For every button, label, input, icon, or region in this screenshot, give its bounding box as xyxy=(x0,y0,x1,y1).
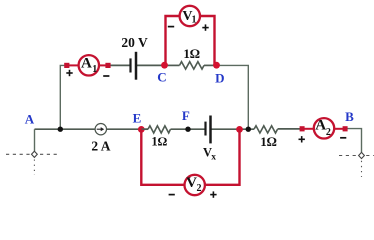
resistor 1ohm top (C-D) xyxy=(180,46,205,69)
V1 polarity signs xyxy=(168,24,209,30)
resistor 1ohm bottom-left (E-F) xyxy=(148,126,171,149)
voltmeter V1 red loop wires xyxy=(166,16,215,65)
wire A1 right terminal to 20V battery xyxy=(108,64,131,66)
battery Vx xyxy=(203,116,216,163)
svg-text:20 V: 20 V xyxy=(121,35,148,50)
node E xyxy=(133,110,145,132)
wire A2 right terminal to node B corner down xyxy=(345,129,362,153)
ammeter A2 xyxy=(314,118,334,139)
wire 2A source to node E xyxy=(107,128,148,130)
open terminal diamond left xyxy=(32,151,38,157)
dashed reference line left xyxy=(6,154,58,175)
voltmeter V1 xyxy=(180,6,200,26)
svg-text:V: V xyxy=(186,175,197,191)
svg-text:A: A xyxy=(315,118,326,134)
svg-text:1Ω: 1Ω xyxy=(183,46,200,61)
wire bottom bus left: node A to 2A source xyxy=(35,128,96,130)
wire Vx battery to resistor (through red node and junction) xyxy=(211,128,255,130)
ammeter A1 xyxy=(79,55,99,75)
svg-text:x: x xyxy=(211,152,216,162)
open terminal diamond right xyxy=(359,152,365,158)
dashed reference line right xyxy=(339,156,374,178)
svg-text:B: B xyxy=(345,109,354,124)
A1 polarity signs xyxy=(66,70,109,76)
node D xyxy=(213,62,224,86)
junction dot (D branch joins bus) xyxy=(246,127,251,132)
resistor 1ohm bottom-right xyxy=(254,126,278,149)
wire resistor to node F to Vx battery xyxy=(171,128,206,130)
current source 2A xyxy=(91,124,110,154)
node A label and corner xyxy=(25,112,35,127)
junction dot (A1 branch joins bus) xyxy=(58,127,63,132)
wire 20V battery to node C xyxy=(136,64,165,66)
V2 polarity signs xyxy=(169,191,217,197)
svg-text:1: 1 xyxy=(192,15,197,26)
svg-text:1Ω: 1Ω xyxy=(260,134,277,149)
ammeter A2 terminals (red squares) xyxy=(300,126,348,131)
A2 polarity signs xyxy=(299,136,347,142)
wire top-left corner from A1 down to bottom bus xyxy=(60,65,67,129)
svg-text:F: F xyxy=(182,108,190,123)
svg-text:C: C xyxy=(157,69,166,84)
svg-text:A: A xyxy=(81,56,92,72)
svg-text:1Ω: 1Ω xyxy=(151,135,167,149)
wire node C to resistor and resistor to node D xyxy=(165,64,217,66)
red node (V2 right tap) xyxy=(236,126,243,133)
ammeter A1 terminals (red squares) xyxy=(64,63,110,68)
wire node E to resistor xyxy=(141,128,148,130)
svg-text:E: E xyxy=(133,110,142,125)
svg-text:2 A: 2 A xyxy=(91,139,110,154)
svg-text:A: A xyxy=(25,112,35,127)
svg-text:2: 2 xyxy=(326,127,331,138)
wire resistor to A2 left terminal xyxy=(278,128,303,130)
voltmeter V2 xyxy=(185,175,205,195)
svg-text:D: D xyxy=(215,71,224,86)
label 20 V xyxy=(121,35,148,50)
svg-text:2: 2 xyxy=(197,183,202,194)
node F xyxy=(182,108,191,132)
voltmeter V2 red loop wires xyxy=(141,129,239,184)
node B label xyxy=(345,109,354,124)
node C xyxy=(157,62,168,85)
svg-text:1: 1 xyxy=(92,64,97,75)
wire node D right and down to bottom bus xyxy=(217,65,249,129)
battery 20V xyxy=(131,52,137,80)
wire node A down to terminal diamond xyxy=(34,129,36,151)
